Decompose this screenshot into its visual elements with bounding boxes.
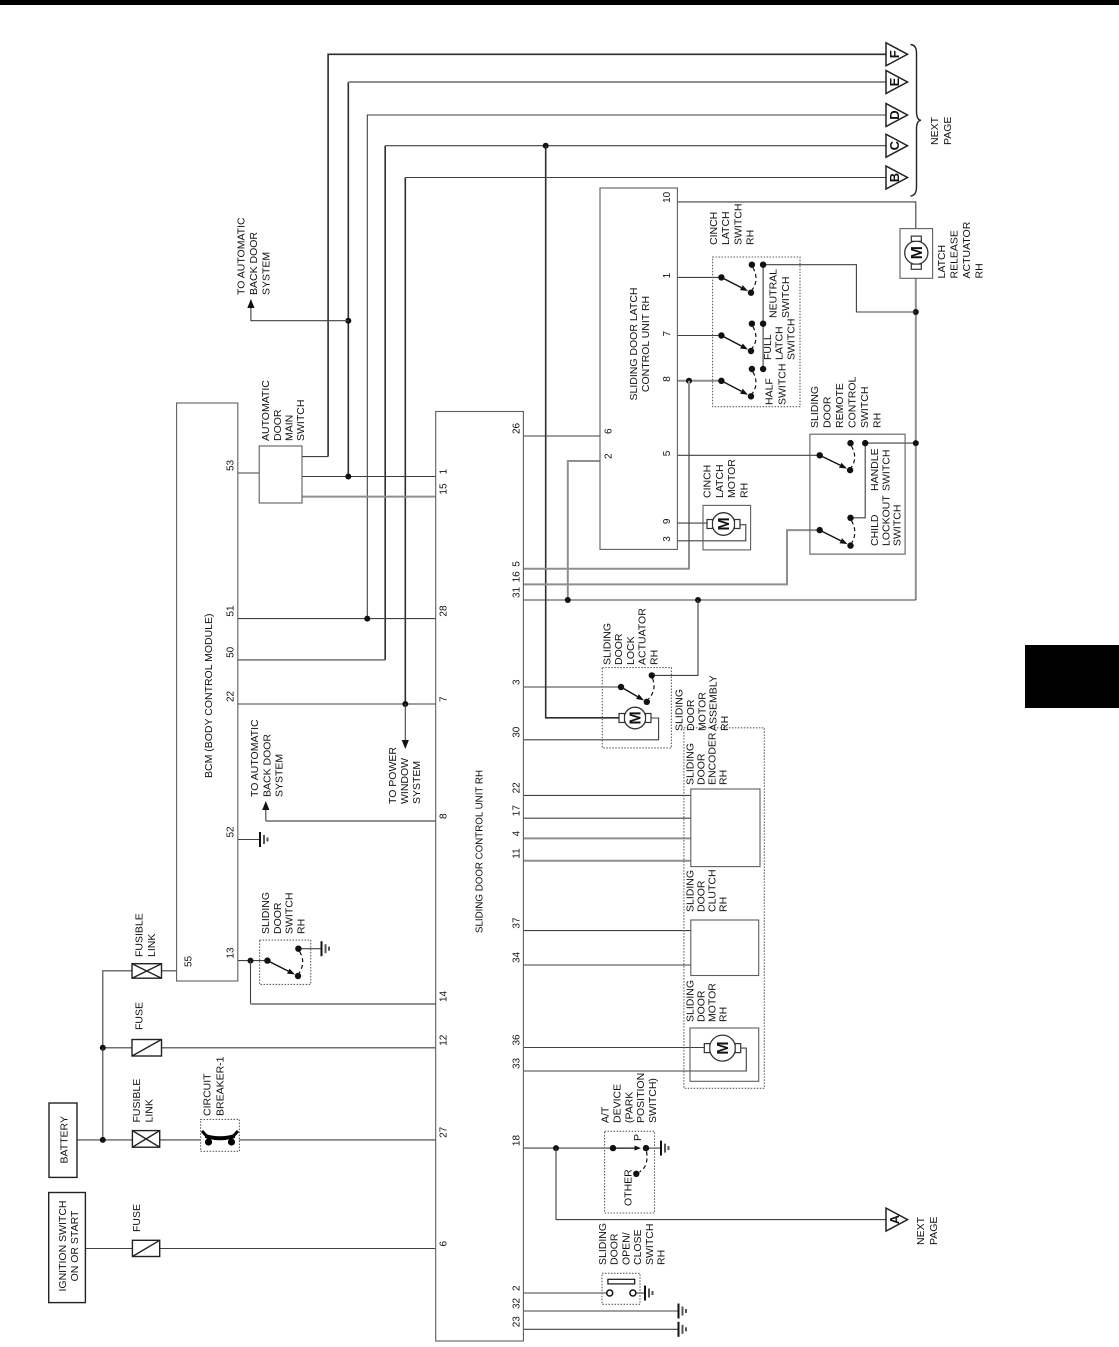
pin label BCM 55 xyxy=(184,955,195,967)
wire SDCU3 to lock actuator switch xyxy=(523,686,621,688)
sliding door lock actuator box xyxy=(602,668,671,748)
wire SDCU11 to encoder xyxy=(523,860,690,862)
svg-text:RH: RH xyxy=(656,1250,668,1265)
svg-text:SWITCH: SWITCH xyxy=(892,505,904,546)
svg-text:LATCH: LATCH xyxy=(774,326,786,360)
label fusible link 1 xyxy=(131,1079,156,1123)
sliding door motor M xyxy=(704,1035,740,1061)
wire F riser xyxy=(328,54,886,456)
sliding door clutch box xyxy=(691,920,759,976)
svg-text:22: 22 xyxy=(512,782,523,794)
svg-text:13: 13 xyxy=(226,947,237,959)
svg-text:1: 1 xyxy=(662,272,673,278)
sliding door open close switch box xyxy=(602,1273,640,1304)
svg-text:4: 4 xyxy=(512,830,523,836)
node on pin22 wire xyxy=(402,701,408,707)
wire latch8 branch down to SDCU5 xyxy=(523,381,689,569)
wire BCM22 to SDCU7 xyxy=(238,703,436,705)
svg-text:14: 14 xyxy=(439,990,450,1002)
latch release actuator box xyxy=(900,229,933,279)
wire BCM13 to sliding door switch xyxy=(238,960,268,962)
ground sliding door switch xyxy=(322,941,330,956)
label handle switch xyxy=(869,448,892,491)
svg-text:OPEN/: OPEN/ xyxy=(620,1232,632,1265)
svg-text:3: 3 xyxy=(512,679,523,685)
svg-text:17: 17 xyxy=(512,805,523,817)
svg-text:5: 5 xyxy=(512,561,523,567)
svg-text:TO AUTOMATIC: TO AUTOMATIC xyxy=(249,719,261,797)
svg-text:1: 1 xyxy=(439,469,450,475)
svg-text:LATCH: LATCH xyxy=(720,211,732,245)
svg-text:SLIDING: SLIDING xyxy=(674,689,686,731)
label fusible link 2 xyxy=(134,913,159,957)
svg-text:30: 30 xyxy=(512,726,523,738)
arrowhead up (top back door) xyxy=(247,299,254,308)
sliding door control unit RH box xyxy=(436,412,524,1342)
svg-text:7: 7 xyxy=(662,331,673,337)
svg-text:SWITCH: SWITCH xyxy=(859,387,871,428)
next page brace xyxy=(911,45,922,197)
svg-text:8: 8 xyxy=(439,813,450,819)
svg-text:2: 2 xyxy=(604,453,615,459)
node on pin1 wire xyxy=(345,474,351,480)
svg-text:HANDLE: HANDLE xyxy=(869,448,881,491)
svg-text:FUSE: FUSE xyxy=(134,1002,146,1030)
wire handle to child lockout xyxy=(851,443,866,518)
svg-text:NEXT: NEXT xyxy=(915,1216,927,1245)
child lockout switch contacts xyxy=(817,515,855,549)
svg-text:LATCH: LATCH xyxy=(936,245,948,279)
svg-text:50: 50 xyxy=(226,646,237,658)
wire main switch to SDCU pin15 xyxy=(302,496,436,498)
node battery branch xyxy=(100,1045,106,1051)
svg-text:A/T: A/T xyxy=(600,1106,612,1123)
wire main switch to SDCU pin1 xyxy=(302,476,436,478)
ground open close switch xyxy=(645,1286,653,1301)
wire latch5 to handle switch xyxy=(677,454,819,456)
wire SDCU34 to clutch xyxy=(523,964,690,966)
node latch2 joint xyxy=(565,597,571,603)
svg-text:22: 22 xyxy=(226,690,237,702)
label OTHER contact xyxy=(623,1169,635,1206)
half switch contacts xyxy=(718,366,766,400)
wire D riser xyxy=(367,115,886,619)
svg-text:WINDOW: WINDOW xyxy=(399,758,411,804)
label child lockout switch xyxy=(869,495,904,546)
sliding door remote control switch box xyxy=(810,434,905,554)
wire BCM50 to riser C xyxy=(238,659,385,661)
wire stub up (back door 2) xyxy=(265,808,267,821)
open close switch contacts xyxy=(607,1279,636,1296)
svg-text:RH: RH xyxy=(974,263,986,278)
label P contact xyxy=(632,1134,644,1141)
svg-text:SLIDING: SLIDING xyxy=(602,623,614,665)
sliding door encoder box xyxy=(691,789,760,867)
svg-text:SWITCH): SWITCH) xyxy=(647,1078,659,1123)
svg-text:11: 11 xyxy=(512,848,523,859)
AT park position switch contacts xyxy=(610,1145,649,1177)
svg-text:ASSEMBLY: ASSEMBLY xyxy=(708,675,720,731)
label neutral switch xyxy=(767,269,792,318)
svg-text:RH: RH xyxy=(745,230,757,245)
wire SDCU33 to door motor return xyxy=(523,1048,746,1071)
svg-text:OTHER: OTHER xyxy=(623,1169,635,1206)
svg-text:SWITCH: SWITCH xyxy=(732,204,744,245)
connector D xyxy=(886,104,908,127)
label to automatic back door system top xyxy=(236,217,273,295)
wire sliding door switch to ground xyxy=(298,948,321,950)
svg-text:RH: RH xyxy=(295,919,307,934)
svg-text:TO POWER: TO POWER xyxy=(387,747,399,804)
svg-text:CINCH: CINCH xyxy=(702,465,714,498)
svg-text:MOTOR: MOTOR xyxy=(726,459,738,498)
label cinch latch switch RH xyxy=(708,204,757,245)
wire latch8 to half switch xyxy=(677,380,721,382)
ignition switch box xyxy=(49,1193,86,1303)
arrowhead up (back door 2) xyxy=(262,801,269,810)
svg-text:C: C xyxy=(887,140,902,150)
svg-text:3: 3 xyxy=(662,536,673,542)
svg-text:SYSTEM: SYSTEM xyxy=(261,252,273,295)
wire fusible link 2 to BCM55 xyxy=(103,971,177,1048)
svg-text:M: M xyxy=(715,1041,732,1054)
label sliding door motor assembly RH xyxy=(674,675,732,731)
wire E riser xyxy=(347,82,349,477)
svg-text:MOTOR: MOTOR xyxy=(696,692,708,731)
svg-text:E: E xyxy=(887,77,902,86)
node handle-actuator joint xyxy=(913,440,919,446)
label fuse 2 xyxy=(134,1002,146,1030)
wire open close switch to ground xyxy=(636,1292,645,1294)
wire ignition to SDCU6 xyxy=(85,1248,435,1250)
svg-text:33: 33 xyxy=(512,1057,523,1069)
label to power window system xyxy=(387,747,423,804)
wire SDCU23 to ground xyxy=(523,1328,678,1330)
lock actuator switch contacts xyxy=(618,672,655,705)
svg-text:SLIDING DOOR LATCH: SLIDING DOOR LATCH xyxy=(628,288,640,401)
section tab xyxy=(1025,645,1119,708)
svg-text:SLIDING DOOR CONTROL UNIT RH: SLIDING DOOR CONTROL UNIT RH xyxy=(474,770,486,933)
label BCM xyxy=(203,613,215,778)
pin labels BCM right xyxy=(226,459,237,958)
node lock actuator joint xyxy=(695,597,701,603)
sliding door latch control unit RH box xyxy=(600,188,677,549)
label circuit breaker xyxy=(202,1056,227,1116)
wire SDCU22 to encoder xyxy=(523,794,690,796)
svg-text:RH: RH xyxy=(718,770,730,785)
svg-text:9: 9 xyxy=(662,518,673,524)
latch release actuator motor M xyxy=(905,236,928,269)
svg-text:SWITCH: SWITCH xyxy=(785,319,797,360)
connector C xyxy=(886,134,908,157)
pin labels SDCU left xyxy=(439,469,450,1247)
fuse F2 xyxy=(132,1040,162,1057)
ground BCM pin52 xyxy=(260,832,268,847)
svg-text:7: 7 xyxy=(439,696,450,702)
svg-text:55: 55 xyxy=(184,955,195,967)
wire lock actuator switch riser xyxy=(652,600,698,675)
label sliding door encoder RH xyxy=(685,732,730,785)
svg-text:REMOTE: REMOTE xyxy=(834,383,846,428)
svg-text:TO AUTOMATIC: TO AUTOMATIC xyxy=(236,217,248,295)
svg-text:53: 53 xyxy=(226,459,237,471)
cinch latch switch group box xyxy=(713,257,800,407)
wire pin13 branch down xyxy=(250,961,252,1004)
svg-text:IGNITION SWITCH: IGNITION SWITCH xyxy=(57,1201,69,1292)
svg-text:F: F xyxy=(887,50,902,58)
svg-text:DOOR: DOOR xyxy=(272,902,284,934)
svg-text:SLIDING: SLIDING xyxy=(260,892,272,934)
svg-text:M: M xyxy=(716,517,733,530)
node on wire C xyxy=(543,143,549,149)
svg-text:28: 28 xyxy=(439,605,450,617)
arrowhead down (power window) xyxy=(402,740,409,749)
label cinch latch motor RH xyxy=(702,459,751,498)
svg-text:LINK: LINK xyxy=(146,934,158,957)
svg-text:52: 52 xyxy=(226,826,237,838)
handle switch contacts xyxy=(817,440,869,473)
wire B horizontal xyxy=(405,177,886,179)
label sliding door motor RH xyxy=(685,980,730,1022)
svg-text:PAGE: PAGE xyxy=(942,117,954,145)
svg-text:BCM (BODY CONTROL MODULE): BCM (BODY CONTROL MODULE) xyxy=(203,613,215,778)
wire main switch top output xyxy=(302,456,328,458)
svg-text:M: M xyxy=(909,246,926,259)
wire SDCU32 to ground xyxy=(523,1310,678,1312)
wire E horizontal xyxy=(348,81,886,83)
svg-text:37: 37 xyxy=(512,917,523,929)
pin labels latch unit right xyxy=(662,191,673,541)
svg-text:32: 32 xyxy=(512,1297,523,1309)
wire to automatic back door system (top) xyxy=(251,306,348,321)
connector B xyxy=(886,166,908,189)
node actuator-neutral joint xyxy=(913,309,919,315)
label next page bottom xyxy=(915,1216,940,1245)
sliding door lock actuator motor M xyxy=(619,707,651,729)
svg-text:RH: RH xyxy=(718,897,730,912)
wire latch9 to cinch motor xyxy=(677,522,707,524)
wire SDCU16 to child lockout switch xyxy=(523,530,819,584)
wire SDCU8 to automatic back door xyxy=(266,820,436,822)
wire C horizontal xyxy=(385,145,886,147)
node on pin51 wire xyxy=(364,616,370,622)
svg-text:DOOR: DOOR xyxy=(272,409,284,441)
svg-text:LOCKOUT: LOCKOUT xyxy=(880,495,892,546)
full latch switch contacts xyxy=(718,321,766,355)
automatic door main switch box xyxy=(259,446,302,503)
wire fuse2 to SDCU12 xyxy=(103,1047,436,1049)
sliding door motor box xyxy=(690,1028,759,1081)
label sliding door clutch RH xyxy=(685,869,730,912)
label half switch xyxy=(764,364,789,405)
svg-text:15: 15 xyxy=(439,483,450,495)
svg-text:23: 23 xyxy=(512,1316,523,1328)
svg-text:2: 2 xyxy=(512,1285,523,1291)
svg-text:DOOR: DOOR xyxy=(609,1233,621,1265)
sliding door switch contacts xyxy=(264,946,303,980)
svg-text:DOOR: DOOR xyxy=(613,633,625,665)
wire stub to power window system xyxy=(404,704,406,741)
label full latch switch xyxy=(762,319,797,360)
page header bar xyxy=(0,0,1119,5)
label sliding door lock actuator RH xyxy=(602,608,661,665)
svg-text:8: 8 xyxy=(662,376,673,382)
node on latch8 wire xyxy=(686,378,692,384)
svg-text:SWITCH: SWITCH xyxy=(780,277,792,318)
svg-text:CONTROL: CONTROL xyxy=(847,377,859,428)
svg-text:PAGE: PAGE xyxy=(928,1217,940,1245)
wire latch1 to cinch latch switch xyxy=(677,276,721,278)
svg-text:SWITCH: SWITCH xyxy=(880,450,892,491)
svg-text:34: 34 xyxy=(512,951,523,963)
svg-text:6: 6 xyxy=(604,428,615,434)
wire battery feed xyxy=(77,1048,436,1140)
label fuse 1 xyxy=(131,1204,143,1232)
label sliding door control unit RH xyxy=(474,770,486,933)
svg-text:RH: RH xyxy=(718,1007,730,1022)
svg-text:RH: RH xyxy=(719,716,731,731)
svg-text:A: A xyxy=(887,1214,902,1224)
svg-text:FULL: FULL xyxy=(762,334,774,360)
node on pin13 wire xyxy=(248,958,254,964)
pin labels SDCU right xyxy=(512,422,523,1327)
label ignition switch xyxy=(57,1201,81,1292)
svg-text:RELEASE: RELEASE xyxy=(949,230,961,278)
svg-text:DEVICE: DEVICE xyxy=(611,1084,623,1123)
ground SDCU pin23 xyxy=(679,1322,687,1337)
svg-text:FUSE: FUSE xyxy=(131,1204,143,1232)
svg-text:SWITCH: SWITCH xyxy=(644,1224,656,1265)
svg-text:LOCK: LOCK xyxy=(625,636,637,665)
svg-text:POSITION: POSITION xyxy=(635,1073,647,1123)
connector E xyxy=(886,71,908,94)
node back door branch xyxy=(345,318,351,324)
label sliding door open close switch RH xyxy=(597,1223,668,1265)
svg-text:BACK DOOR: BACK DOOR xyxy=(261,734,273,797)
svg-text:MAIN: MAIN xyxy=(283,415,295,441)
svg-text:B: B xyxy=(887,173,902,182)
svg-text:NEXT: NEXT xyxy=(929,116,941,145)
cinch latch motor M xyxy=(707,513,740,536)
svg-text:ON OR START: ON OR START xyxy=(69,1210,81,1281)
wire SDCU18 to AT device xyxy=(523,1147,613,1149)
circuit breaker CB-1 element xyxy=(202,1131,238,1146)
battery box xyxy=(49,1103,77,1177)
wire BCM51 to SDCU28 xyxy=(238,618,436,620)
wire SDCU2 to open close switch xyxy=(523,1292,607,1294)
wire SDCU31 bus xyxy=(523,599,915,601)
svg-text:51: 51 xyxy=(226,605,237,617)
label battery xyxy=(58,1116,70,1163)
svg-text:(PARK: (PARK xyxy=(623,1092,635,1123)
sliding door motor assembly box xyxy=(684,728,764,1089)
fuse F1 xyxy=(132,1240,159,1256)
pin labels latch unit left xyxy=(604,428,615,459)
node on battery wire xyxy=(100,1137,106,1143)
svg-text:CLOSE: CLOSE xyxy=(632,1229,644,1265)
label sliding door remote control switch RH xyxy=(809,377,884,428)
svg-text:RH: RH xyxy=(648,650,660,665)
wire switch contact bus xyxy=(762,265,764,369)
svg-text:10: 10 xyxy=(662,191,673,203)
BCM (Body Control Module) box xyxy=(177,403,238,981)
svg-text:16: 16 xyxy=(512,571,523,583)
svg-text:CIRCUIT: CIRCUIT xyxy=(202,1073,214,1116)
ground AT device xyxy=(661,1141,669,1156)
wire BCM52 to ground xyxy=(238,839,260,841)
svg-text:SYSTEM: SYSTEM xyxy=(274,754,286,797)
svg-text:P: P xyxy=(632,1134,644,1141)
wire to SDCU14 xyxy=(251,1003,436,1005)
label sliding door latch control unit RH xyxy=(628,288,652,401)
svg-text:M: M xyxy=(628,711,645,724)
wire latch7 to full latch switch xyxy=(677,335,721,337)
svg-text:CHILD: CHILD xyxy=(869,514,881,546)
svg-text:ACTUATOR: ACTUATOR xyxy=(961,221,973,278)
wire BCM pin53 to main switch xyxy=(238,472,259,474)
svg-text:36: 36 xyxy=(512,1034,523,1046)
svg-text:DOOR: DOOR xyxy=(685,699,697,731)
label to automatic back door system 2 xyxy=(249,719,286,797)
svg-text:D: D xyxy=(887,110,902,119)
label next page top xyxy=(929,116,954,145)
fusible link FL2 xyxy=(132,964,162,979)
svg-text:CINCH: CINCH xyxy=(708,212,720,245)
fusible link FL1 xyxy=(132,1131,159,1148)
svg-text:DOOR: DOOR xyxy=(822,396,834,428)
svg-text:6: 6 xyxy=(439,1241,450,1247)
label AT device xyxy=(600,1073,660,1123)
label latch release actuator RH xyxy=(936,221,986,278)
svg-text:SWITCH: SWITCH xyxy=(284,893,296,934)
AT device box xyxy=(605,1131,655,1213)
svg-text:FUSIBLE: FUSIBLE xyxy=(131,1079,143,1123)
wire SDCU30 to lock actuator motor xyxy=(523,718,658,740)
node on pin18 wire xyxy=(553,1145,559,1151)
wire C riser xyxy=(384,146,386,660)
svg-text:12: 12 xyxy=(439,1034,450,1046)
wire SDCU17 to encoder xyxy=(523,817,690,819)
wire SDCU37 to clutch xyxy=(523,930,690,932)
svg-text:31: 31 xyxy=(512,586,523,598)
svg-text:LINK: LINK xyxy=(144,1099,156,1122)
svg-text:BACK DOOR: BACK DOOR xyxy=(248,232,260,295)
svg-text:NEUTRAL: NEUTRAL xyxy=(767,269,779,318)
label sliding door switch RH xyxy=(260,892,307,934)
svg-text:SLIDING: SLIDING xyxy=(809,386,821,428)
label automatic door main switch xyxy=(260,380,307,441)
svg-text:5: 5 xyxy=(662,450,673,456)
wire latch10 to latch release actuator xyxy=(677,202,915,229)
svg-text:27: 27 xyxy=(439,1126,450,1138)
wire SDCU36 to door motor xyxy=(523,1047,705,1049)
cinch latch switch contacts xyxy=(718,262,766,296)
wire C drop to lock actuator motor xyxy=(546,146,623,718)
svg-text:LATCH: LATCH xyxy=(714,464,726,498)
ground SDCU pin32 xyxy=(679,1304,687,1319)
svg-text:BREAKER-1: BREAKER-1 xyxy=(214,1056,226,1116)
svg-text:18: 18 xyxy=(512,1135,523,1147)
wire AT P contact to ground xyxy=(646,1147,661,1149)
wire latch3 to cinch motor return xyxy=(677,525,745,541)
svg-text:ACTUATOR: ACTUATOR xyxy=(637,608,649,665)
svg-text:AUTOMATIC: AUTOMATIC xyxy=(260,380,272,441)
svg-text:FUSIBLE: FUSIBLE xyxy=(134,913,146,957)
circuit breaker box xyxy=(201,1119,240,1151)
svg-text:SWITCH: SWITCH xyxy=(295,400,307,441)
connector F xyxy=(886,43,908,66)
wire pin18 branch to connector A xyxy=(556,1148,886,1220)
